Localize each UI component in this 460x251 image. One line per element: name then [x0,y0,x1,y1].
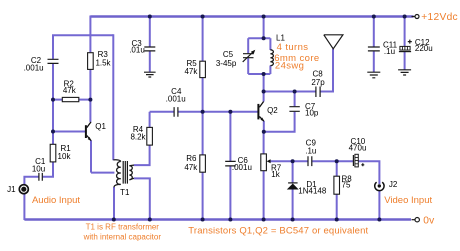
junction R7 / 0V rail [262,218,266,222]
junction J2 / 0V rail [377,218,381,222]
wire L1 top lead [269,38,271,50]
label L1 note [274,42,319,71]
svg-text:10k: 10k [58,152,72,161]
junction R6 / 0V rail [201,218,205,222]
wire R6 bottom to rail [202,172,204,219]
resistor R1 [50,144,71,162]
wire base line y111.8 right to Q2 [178,111,257,113]
wire C12 to ground [404,52,406,70]
junction C11 / +12V rail [372,15,376,19]
wire base line y111.8 left [150,111,174,113]
capacitor C11 [368,40,398,56]
junction T1 right / 0V rail [148,218,152,222]
junction C2/R2 node [51,98,55,102]
svg-text:T1: T1 [120,188,130,197]
svg-text:27p: 27p [311,78,325,87]
svg-text:Q2: Q2 [267,106,278,115]
wire C1 left to J1 [24,177,38,185]
potentiometer R7 [261,154,282,179]
svg-text:C8: C8 [312,70,323,79]
junction C6/Q2 base node [228,110,232,114]
wire R7 wiper to C9 [270,160,308,162]
svg-text:.001u: .001u [232,163,252,172]
wire J2 to rail [378,190,380,219]
capacitor C3 [129,39,155,55]
wire T1 right bottom lead to rail [134,178,150,219]
wire C11 from rail [373,17,375,47]
junction Q2 emitter node [262,130,266,134]
ground below C12 [398,70,411,75]
transistor Q1 [85,122,107,141]
capacitor C12 electrolytic [399,38,433,53]
junction R5 / +12V rail [201,15,205,19]
wire Q2 collector stub [263,92,265,102]
wire C3 from rail [149,17,151,47]
0v terminal [412,216,436,227]
wire C3 to ground [149,51,151,71]
svg-text:Audio Input: Audio Input [32,195,80,206]
wire T1 left winding bottom to rail [113,187,115,220]
svg-text:24swg: 24swg [275,61,304,72]
svg-text:10u: 10u [32,165,45,174]
svg-text:Transistors Q1,Q2 = BC547 or e: Transistors Q1,Q2 = BC547 or equivalent [188,226,368,237]
resistor R5 [184,59,205,78]
wire C11 to ground [373,51,375,72]
svg-text:Q1: Q1 [95,122,106,131]
wire C6 top [229,112,231,161]
svg-text:47k: 47k [63,86,77,95]
wire 0V bottom rail [24,218,411,220]
wire C6 bottom to rail [229,166,231,219]
wire tank bottom [248,73,270,75]
svg-text:4 turns: 4 turns [277,42,309,53]
capacitor C10 electrolytic [349,137,367,167]
wire R3 top from rail [89,16,91,53]
wire Q1 emitter to T1 tap [91,172,114,174]
resistor R8 [334,175,352,195]
junction C3 / +12V rail [148,15,152,19]
svg-text:.1u: .1u [384,47,395,56]
junction C12 / +12V rail [403,15,407,19]
junction T1 left / 0V rail [112,218,116,222]
wire R4 top corner [149,112,151,128]
capacitor C9 [305,138,316,166]
wire R8 bottom [336,194,338,219]
transformer T1 [113,160,134,197]
wire R1 bottom to C1 [43,162,53,177]
ground below C11 [367,72,380,78]
svg-text:R6: R6 [186,154,197,163]
wire D1 bottom [292,190,294,220]
svg-text:75: 75 [342,180,351,189]
wire R2 left stub [53,99,62,101]
wire C2 top vertical x53 [52,35,54,59]
wire C7 bottom to emitter [264,112,295,132]
wire R7 bottom to rail [263,171,265,220]
svg-text:.1u: .1u [305,147,316,156]
variable capacitor C5 [216,50,255,68]
capacitor C4 [166,87,186,117]
wire Q1 emitter down [90,140,92,172]
wire T1 left top lead x113 [112,34,114,160]
connector J2 [375,180,398,190]
svg-text:C5: C5 [223,50,234,59]
svg-text:L1: L1 [276,33,285,42]
capacitor C2 [24,56,59,72]
+12Vdc terminal [412,12,458,23]
antenna [324,35,343,49]
wire L1 bottom lead [269,66,271,75]
junction C6 / 0V rail [228,218,232,222]
connector J1 [7,185,28,194]
svg-text:1.5k: 1.5k [95,58,111,67]
wire C7 top stub [294,92,296,107]
svg-text:1N4148: 1N4148 [298,187,327,196]
svg-text:470u: 470u [349,144,367,153]
wire horizontal y35 C2 to T1 [52,34,113,36]
junction Q2 collector node [262,90,266,94]
svg-text:J1: J1 [7,185,16,194]
svg-text:47k: 47k [184,67,198,76]
wire tank top [248,37,270,39]
wire Q2 emitter stub [263,121,265,132]
wire C8 to antenna [321,49,334,92]
svg-text:Video Input: Video Input [384,195,432,206]
wire C10 to J2 [359,161,380,184]
junction tank bottom node [262,72,266,76]
junction D1 / 0V rail [291,218,295,222]
inductor L1 [270,33,285,65]
junction R7/C9/D1 node [291,159,295,163]
wire C5 bottom stub [247,58,249,74]
capacitor C6 [225,156,252,172]
svg-text:10p: 10p [305,108,319,117]
wire C12 from rail [404,17,406,47]
capacitor C7 [289,102,318,117]
wire R5 from rail [202,17,204,62]
junction Q1 base node [51,130,55,134]
wire D1 top [292,161,294,183]
transistor Q2 [257,102,278,122]
resistor R6 [184,154,205,172]
resistor R3 [88,50,112,70]
wire J1 to bottom rail [23,194,25,220]
svg-text:.001u: .001u [24,63,44,72]
wire collector line to C8 [264,91,316,93]
svg-text:8.2k: 8.2k [130,133,146,142]
svg-text:with internal capacitor: with internal capacitor [83,232,162,241]
wire C9 to C10 [312,160,353,162]
svg-text:J2: J2 [389,180,398,189]
junction tank / +12V rail [262,15,266,19]
wire R8 top [336,161,338,176]
label T1 note [83,222,162,241]
junction C9/C10/R8 node [335,159,339,163]
svg-text:0v: 0v [423,216,435,227]
svg-text:220u: 220u [415,44,433,53]
wire C5 top stub [247,38,249,53]
diode D1 [287,180,327,196]
svg-text:+12Vdc: +12Vdc [421,12,458,23]
capacitor C8 [311,70,325,98]
svg-text:.01u: .01u [129,46,145,55]
wire emitter node to R7 [263,132,265,154]
svg-text:3-45p: 3-45p [216,59,237,68]
wire +12V top rail [90,15,413,17]
wire R4 bottom to T1 right top lead [134,145,150,165]
wire R2 right stub [79,99,91,101]
ground below C3 [144,72,156,77]
junction R3/R2/Q1 collector node [88,98,92,102]
wire tank from rail [263,17,265,39]
junction R8 / 0V rail [335,218,339,222]
junction tank top node [262,36,266,40]
svg-text:.001u: .001u [166,94,186,103]
svg-text:47k: 47k [184,163,198,172]
svg-text:T1 is RF transformer: T1 is RF transformer [86,222,160,231]
wire R3 bottom to Q1 collector [89,70,91,122]
junction C7 top node [293,90,297,94]
capacitor C1 [32,157,46,181]
wire C2 bottom to R1 top x53 [52,64,54,145]
svg-text:1k: 1k [271,170,280,179]
resistor R2 [62,80,79,102]
wire tank to Q2 collector [263,74,265,92]
wire R5 bottom through node to R6 [202,78,204,155]
junction R5/R6/Q2 base node [201,110,205,114]
wire Q1 base [53,131,85,133]
resistor R4 [130,125,152,145]
